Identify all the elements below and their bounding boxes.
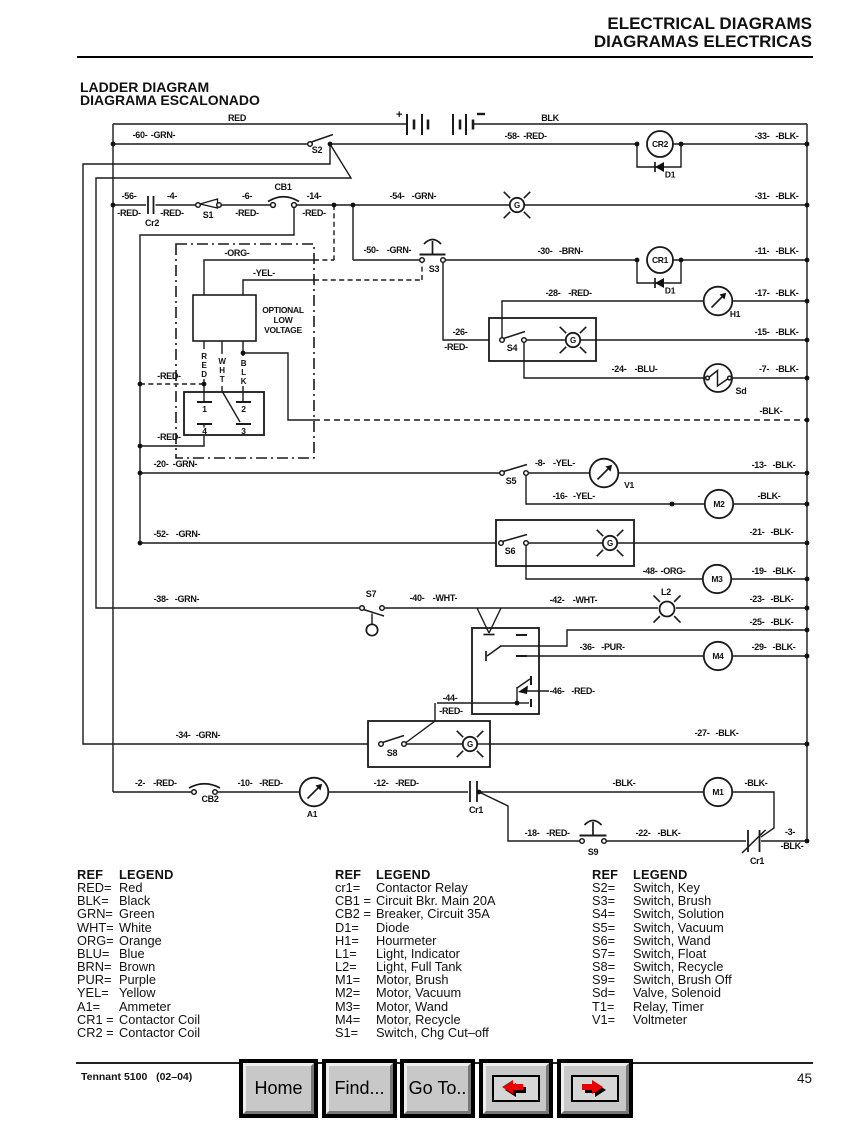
svg-text:H: H: [219, 366, 225, 375]
svg-text:-28-: -28-: [546, 288, 561, 298]
svg-text:-19-: -19-: [752, 566, 767, 576]
svg-text:-38-: -38-: [154, 594, 169, 604]
svg-text:V1: V1: [624, 480, 634, 490]
svg-text:-GRN-: -GRN-: [175, 594, 200, 604]
svg-text:B: B: [241, 359, 247, 368]
svg-text:2: 2: [241, 404, 246, 414]
svg-text:-22-: -22-: [636, 828, 651, 838]
svg-text:-RED-: -RED-: [571, 686, 595, 696]
svg-text:-GRN-: -GRN-: [387, 245, 412, 255]
svg-text:M1: M1: [712, 787, 724, 797]
svg-text:VOLTAGE: VOLTAGE: [264, 325, 302, 335]
svg-text:-56-: -56-: [122, 191, 137, 201]
svg-text:-BLK-: -BLK-: [760, 406, 783, 416]
svg-text:W: W: [218, 357, 226, 366]
svg-text:-42-: -42-: [550, 595, 565, 605]
svg-text:M3: M3: [711, 574, 723, 584]
svg-text:L2: L2: [661, 587, 671, 597]
svg-text:-34-: -34-: [176, 730, 191, 740]
svg-text:-BLK-: -BLK-: [758, 491, 781, 501]
svg-text:-RED-: -RED-: [444, 342, 468, 352]
svg-text:R: R: [201, 352, 207, 361]
svg-text:-ORG-: -ORG-: [225, 248, 250, 258]
svg-text:-BLK-: -BLK-: [773, 460, 796, 470]
svg-text:CB1: CB1: [274, 182, 291, 192]
svg-text:CB2: CB2: [201, 794, 218, 804]
svg-text:-RED-: -RED-: [157, 432, 181, 442]
svg-text:S4: S4: [507, 343, 518, 353]
svg-text:-RED-: -RED-: [157, 371, 181, 381]
svg-text:-ORG-: -ORG-: [661, 566, 686, 576]
svg-text:-4-: -4-: [167, 191, 177, 201]
svg-text:-15-: -15-: [755, 327, 770, 337]
svg-text:-29-: -29-: [752, 642, 767, 652]
svg-text:-11-: -11-: [755, 246, 770, 256]
svg-text:-33-: -33-: [755, 131, 770, 141]
svg-text:-46-: -46-: [550, 686, 565, 696]
svg-text:H1: H1: [730, 309, 741, 319]
svg-text:-BLK-: -BLK-: [771, 594, 794, 604]
svg-text:-RED-: -RED-: [568, 288, 592, 298]
svg-text:-RED-: -RED-: [259, 778, 283, 788]
svg-text:-3-: -3-: [785, 827, 795, 837]
svg-text:-7-: -7-: [759, 364, 769, 374]
svg-text:-BLK-: -BLK-: [776, 327, 799, 337]
svg-text:BLK: BLK: [541, 113, 559, 123]
svg-text:-52-: -52-: [154, 529, 169, 539]
svg-text:S3: S3: [429, 264, 440, 274]
svg-text:-RED-: -RED-: [523, 131, 547, 141]
svg-text:T: T: [220, 375, 225, 384]
svg-text:G: G: [607, 539, 613, 548]
svg-text:G: G: [467, 740, 473, 749]
svg-text:-23-: -23-: [750, 594, 765, 604]
svg-text:-50-: -50-: [364, 245, 379, 255]
svg-text:CR2: CR2: [652, 139, 669, 149]
svg-text:S9: S9: [588, 847, 599, 857]
svg-text:-21-: -21-: [750, 527, 765, 537]
svg-text:Cr1: Cr1: [469, 805, 483, 815]
svg-text:-RED-: -RED-: [235, 208, 259, 218]
svg-text:-BLU-: -BLU-: [635, 364, 658, 374]
svg-text:-GRN-: -GRN-: [412, 191, 437, 201]
svg-text:+: +: [396, 109, 402, 121]
svg-text:-10-: -10-: [238, 778, 253, 788]
svg-text:-BLK-: -BLK-: [776, 364, 799, 374]
svg-text:D1: D1: [665, 170, 676, 180]
svg-text:Sd: Sd: [736, 386, 747, 396]
svg-text:K: K: [241, 377, 247, 386]
svg-text:-WHT-: -WHT-: [433, 593, 458, 603]
svg-text:1: 1: [202, 404, 207, 414]
svg-text:D: D: [201, 370, 207, 379]
svg-text:-RED-: -RED-: [302, 208, 326, 218]
svg-text:-2-: -2-: [135, 778, 145, 788]
svg-text:-RED-: -RED-: [153, 778, 177, 788]
svg-text:-BLK-: -BLK-: [781, 841, 804, 851]
svg-text:-BLK-: -BLK-: [745, 778, 768, 788]
svg-text:-BLK-: -BLK-: [716, 728, 739, 738]
svg-text:L: L: [241, 368, 246, 377]
svg-text:M4: M4: [712, 651, 724, 661]
svg-text:-BLK-: -BLK-: [658, 828, 681, 838]
svg-text:-44-: -44-: [443, 693, 458, 703]
svg-text:-27-: -27-: [695, 728, 710, 738]
svg-text:-BLK-: -BLK-: [776, 288, 799, 298]
svg-text:S2: S2: [312, 145, 323, 155]
svg-text:-24-: -24-: [612, 364, 627, 374]
svg-text:M2: M2: [713, 499, 725, 509]
svg-text:G: G: [570, 336, 576, 345]
svg-text:-RED-: -RED-: [395, 778, 419, 788]
svg-text:-YEL-: -YEL-: [573, 491, 595, 501]
svg-text:-13-: -13-: [752, 460, 767, 470]
svg-text:OPTIONAL: OPTIONAL: [262, 305, 304, 315]
svg-text:-BRN-: -BRN-: [559, 246, 583, 256]
svg-text:-18-: -18-: [525, 828, 540, 838]
svg-text:-GRN-: -GRN-: [176, 529, 201, 539]
svg-text:-RED-: -RED-: [117, 208, 141, 218]
svg-text:-12-: -12-: [374, 778, 389, 788]
svg-text:4: 4: [202, 426, 207, 436]
svg-text:-BLK-: -BLK-: [776, 246, 799, 256]
svg-text:Cr1: Cr1: [750, 856, 764, 866]
svg-text:S7: S7: [366, 589, 377, 599]
svg-text:E: E: [201, 361, 207, 370]
svg-text:-40-: -40-: [410, 593, 425, 603]
svg-text:-54-: -54-: [390, 191, 405, 201]
svg-text:-60-: -60-: [133, 130, 148, 140]
svg-text:-RED-: -RED-: [439, 706, 463, 716]
svg-text:-YEL-: -YEL-: [253, 268, 275, 278]
svg-text:3: 3: [241, 426, 246, 436]
svg-text:-BLK-: -BLK-: [776, 131, 799, 141]
svg-text:-BLK-: -BLK-: [771, 617, 794, 627]
svg-text:-31-: -31-: [755, 191, 770, 201]
svg-text:-8-: -8-: [535, 458, 545, 468]
svg-text:S6: S6: [505, 546, 516, 556]
svg-text:-30-: -30-: [538, 246, 553, 256]
svg-text:S1: S1: [203, 210, 214, 220]
svg-text:-20-: -20-: [154, 459, 169, 469]
svg-text:-58-: -58-: [505, 131, 520, 141]
svg-text:-25-: -25-: [750, 617, 765, 627]
svg-text:-14-: -14-: [307, 191, 322, 201]
svg-text:LOW: LOW: [274, 315, 294, 325]
svg-text:S8: S8: [387, 748, 398, 758]
svg-text:-GRN-: -GRN-: [196, 730, 221, 740]
svg-text:CR1: CR1: [652, 255, 669, 265]
svg-text:RED: RED: [228, 113, 247, 123]
svg-text:D1: D1: [665, 286, 676, 296]
svg-text:-48-: -48-: [643, 566, 658, 576]
svg-text:-BLK-: -BLK-: [771, 527, 794, 537]
svg-text:-PUR-: -PUR-: [601, 642, 625, 652]
svg-text:Cr2: Cr2: [145, 218, 159, 228]
svg-text:-RED-: -RED-: [546, 828, 570, 838]
svg-text:-6-: -6-: [242, 191, 252, 201]
svg-text:-GRN-: -GRN-: [151, 130, 176, 140]
svg-text:-36-: -36-: [580, 642, 595, 652]
svg-text:-17-: -17-: [755, 288, 770, 298]
svg-text:-26-: -26-: [453, 327, 468, 337]
svg-text:-YEL-: -YEL-: [553, 458, 575, 468]
svg-text:-BLK-: -BLK-: [773, 566, 796, 576]
svg-text:A1: A1: [307, 809, 318, 819]
svg-text:-16-: -16-: [553, 491, 568, 501]
svg-text:-RED-: -RED-: [160, 208, 184, 218]
svg-text:-WHT-: -WHT-: [573, 595, 598, 605]
svg-text:-GRN-: -GRN-: [173, 459, 198, 469]
svg-text:-BLK-: -BLK-: [776, 191, 799, 201]
svg-text:G: G: [514, 201, 520, 210]
svg-text:-BLK-: -BLK-: [773, 642, 796, 652]
svg-text:-BLK-: -BLK-: [613, 778, 636, 788]
svg-text:S5: S5: [506, 476, 517, 486]
